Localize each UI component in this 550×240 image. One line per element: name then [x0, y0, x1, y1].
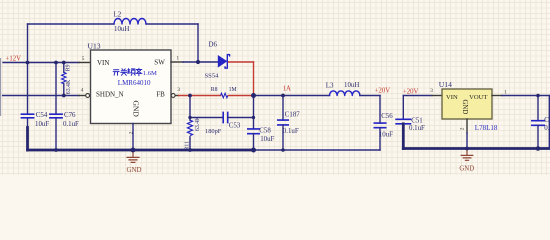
svg-text:C76: C76	[64, 112, 76, 119]
node +12V/C76	[54, 61, 58, 65]
svg-text:1.6M: 1.6M	[143, 70, 157, 77]
pin 3 U14 stub	[432, 95, 442, 97]
U13 comment chinese 频	[128, 69, 136, 76]
wire top-left drop to +12V rail	[27, 24, 29, 63]
svg-text:10uH: 10uH	[344, 82, 359, 89]
wire R11 top lead	[189, 96, 191, 121]
wire C58 column lower	[253, 134, 255, 150]
node SW/L2	[196, 60, 200, 64]
svg-text:GND: GND	[132, 101, 141, 118]
wire FB red right	[228, 95, 253, 97]
svg-text:3: 3	[430, 88, 433, 94]
pin 3 bubble	[171, 94, 175, 98]
svg-text:L78L18: L78L18	[475, 124, 498, 132]
wire 1A rail left	[254, 95, 330, 97]
wire C76 column upper	[55, 63, 57, 115]
ground rail thick right	[403, 147, 549, 150]
svg-text:FB: FB	[156, 91, 165, 99]
svg-text:VIN: VIN	[446, 94, 458, 101]
wire R9 top lead	[63, 63, 65, 73]
svg-text:+12V: +12V	[6, 56, 22, 63]
svg-text:C58: C58	[259, 128, 271, 135]
wire VOUT rail	[502, 95, 549, 97]
node gnd/C76	[54, 148, 58, 152]
wire right cap column upper	[537, 96, 539, 121]
capacitor C76	[49, 112, 79, 128]
capacitor C51	[395, 117, 425, 132]
U13 comment chinese 率	[136, 68, 142, 75]
regulator U14 body	[439, 80, 498, 132]
svg-text:3: 3	[177, 87, 180, 93]
svg-text:VOUT: VOUT	[469, 94, 487, 101]
wire right edge cropped column	[548, 96, 550, 150]
wire U13 GND pin stub	[132, 124, 134, 151]
capacitor C55 (clipped)	[531, 117, 550, 132]
wire ground run thin middle	[254, 149, 381, 151]
node gnd/R11	[188, 148, 192, 152]
capacitor C187	[277, 111, 300, 135]
left image border artifact	[0, 58, 2, 116]
inductor L3	[326, 82, 360, 96]
wire U14 GND pin stub	[466, 119, 468, 133]
wire C187 column lower	[282, 125, 284, 150]
wire C51 column upper	[402, 96, 404, 120]
svg-text:SW: SW	[154, 58, 165, 66]
wire R9 bottom lead	[63, 84, 65, 96]
pin 4 SHDN stub	[79, 95, 86, 97]
wire diode cathode red	[229, 61, 254, 63]
node R11/C53	[188, 116, 191, 119]
pin 1 VOUT stub	[492, 95, 502, 97]
resistor R11	[184, 116, 201, 151]
node gnd/U13 pin2	[131, 148, 136, 153]
svg-text:C53: C53	[229, 123, 241, 130]
wire C58 column upper	[253, 96, 255, 129]
wire +12V rail	[3, 62, 79, 64]
svg-text:0.1uF: 0.1uF	[409, 125, 425, 132]
wire R11 bottom lead	[189, 137, 191, 150]
svg-text:U13: U13	[88, 41, 101, 50]
node SHDN/R9	[62, 94, 66, 98]
ground symbol right	[459, 149, 474, 173]
pin 1 SW stub	[171, 61, 183, 63]
svg-text:C51: C51	[411, 117, 423, 124]
wire output column red	[253, 62, 255, 96]
wire C187 column upper	[282, 96, 284, 121]
svg-text:GND: GND	[127, 167, 142, 174]
capacitor C58	[247, 128, 275, 143]
ground symbol left	[126, 150, 141, 174]
node 1A/C187	[281, 94, 285, 98]
svg-text:10uF: 10uF	[35, 121, 49, 128]
capacitor C56	[374, 113, 394, 138]
capacitor C53	[205, 112, 241, 136]
diode D6	[205, 42, 230, 80]
node vout corner	[536, 94, 540, 98]
svg-text:L3: L3	[326, 83, 334, 90]
wire C76 column lower	[55, 118, 57, 150]
svg-text:+20V: +20V	[403, 88, 419, 95]
wire FB red left	[179, 95, 221, 97]
node gnd/C58	[251, 148, 256, 153]
op-amp U13 body	[88, 41, 172, 123]
svg-text:1: 1	[176, 55, 179, 61]
node gnd/U14 pin2	[465, 147, 469, 151]
svg-text:2: 2	[129, 131, 135, 134]
pin 5 VIN stub	[79, 62, 91, 64]
svg-text:+20V: +20V	[375, 88, 391, 95]
wire C53 branch left	[190, 117, 223, 119]
wire C53 branch right	[228, 117, 254, 119]
U13 comment chinese 开	[113, 70, 119, 76]
svg-text:10uF: 10uF	[379, 131, 393, 138]
svg-text:2: 2	[460, 127, 466, 130]
wire L3 to +20V corner	[360, 95, 380, 97]
wire C56 column upper	[379, 96, 381, 124]
U13 comment chinese 关	[121, 69, 127, 76]
inductor L2	[114, 12, 147, 34]
node out/C53	[252, 116, 255, 119]
wire C56 column lower	[379, 128, 381, 150]
ground bus thick left	[28, 149, 254, 152]
capacitor C54	[21, 112, 50, 128]
node +12V/R9	[62, 61, 66, 65]
node out rail / diode	[251, 93, 256, 98]
pin 4 bubble	[86, 94, 90, 98]
wire top-right drop to SW node	[197, 24, 199, 62]
node gnd right cap	[536, 146, 541, 151]
svg-text:GND: GND	[461, 100, 468, 115]
resistor R9	[62, 64, 73, 94]
svg-text:0.1uF: 0.1uF	[283, 128, 299, 135]
svg-text:10uF: 10uF	[260, 136, 274, 143]
wire top rail left segment	[28, 23, 115, 25]
svg-text:C187: C187	[285, 111, 300, 118]
wire C54 column upper	[27, 63, 29, 115]
svg-text:VIN: VIN	[97, 59, 109, 67]
svg-text:4: 4	[81, 87, 84, 93]
node FB/R11	[188, 94, 192, 98]
wire C54 column lower thick	[26, 128, 29, 151]
svg-text:1A: 1A	[283, 85, 291, 92]
svg-text:LMR64010: LMR64010	[118, 79, 151, 87]
svg-text:GND: GND	[459, 165, 474, 172]
svg-text:5: 5	[82, 56, 85, 62]
svg-text:C54: C54	[36, 112, 48, 119]
wire SW to diode	[183, 61, 218, 63]
svg-text:C56: C56	[381, 113, 393, 120]
wire SHDN rail	[3, 95, 79, 97]
wire C51 column lower thick	[402, 124, 405, 149]
wire right cap column lower	[537, 125, 539, 148]
svg-text:U14: U14	[439, 80, 452, 89]
svg-text:63.4K: 63.4K	[66, 79, 72, 94]
wire U14 GND to rail	[466, 133, 468, 149]
wire +20V to U14 VIN	[403, 95, 432, 97]
svg-text:L2: L2	[114, 12, 122, 19]
node gnd/C187	[281, 148, 285, 152]
wire top rail right segment	[146, 23, 198, 25]
svg-text:SHDN_N: SHDN_N	[96, 91, 124, 99]
wire C54 column lower	[27, 119, 29, 128]
svg-text:10uH: 10uH	[114, 26, 129, 33]
resistor R8	[211, 87, 237, 98]
node +12V/L2	[26, 61, 30, 65]
pin 3 FB stub	[175, 95, 178, 97]
svg-text:R9: R9	[65, 64, 71, 71]
svg-text:1: 1	[504, 89, 507, 95]
svg-text:SS54: SS54	[205, 73, 220, 80]
svg-text:D6: D6	[209, 42, 218, 49]
svg-text:180pF: 180pF	[205, 128, 222, 135]
svg-text:R8: R8	[211, 87, 218, 93]
svg-text:0.1uF: 0.1uF	[63, 121, 79, 128]
svg-text:1M: 1M	[229, 87, 237, 93]
